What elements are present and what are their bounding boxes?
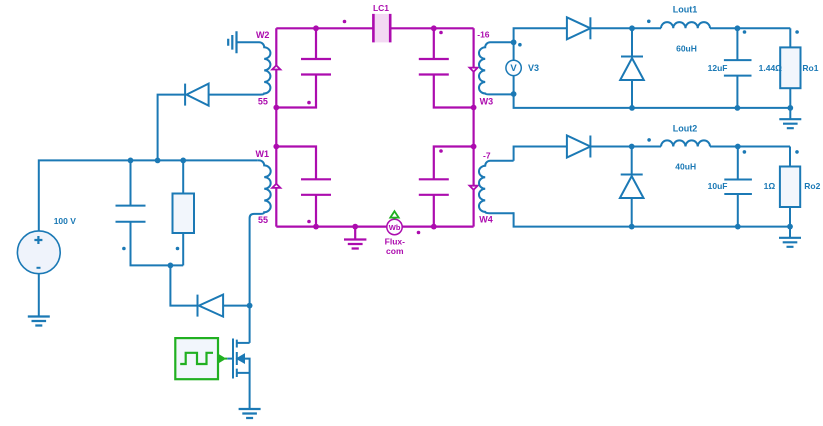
svg-text:-16: -16 — [477, 30, 490, 40]
svg-text:W2: W2 — [256, 30, 270, 40]
svg-text:100 V: 100 V — [54, 216, 77, 226]
svg-text:60uH: 60uH — [676, 43, 697, 53]
svg-text:W4: W4 — [479, 215, 493, 225]
svg-text:com: com — [386, 246, 404, 256]
svg-text:Wb: Wb — [389, 223, 401, 232]
svg-text:12uF: 12uF — [708, 63, 728, 73]
svg-text:W1: W1 — [256, 149, 270, 159]
svg-text:-7: -7 — [483, 150, 491, 160]
svg-text:LC1: LC1 — [373, 3, 389, 13]
svg-text:40uH: 40uH — [675, 161, 696, 171]
svg-text:1.44Ω: 1.44Ω — [759, 63, 783, 73]
svg-text:W3: W3 — [480, 97, 494, 107]
svg-text:V3: V3 — [528, 63, 539, 73]
svg-text:1Ω: 1Ω — [764, 181, 776, 191]
svg-text:Lout1: Lout1 — [673, 4, 698, 14]
svg-text:55: 55 — [258, 215, 268, 225]
svg-text:Ro2: Ro2 — [804, 181, 820, 191]
svg-text:Lout2: Lout2 — [673, 123, 698, 133]
svg-text:V: V — [510, 63, 517, 74]
svg-text:Ro1: Ro1 — [802, 63, 818, 73]
svg-text:Flux-: Flux- — [385, 237, 405, 247]
svg-text:10uF: 10uF — [708, 181, 728, 191]
svg-text:55: 55 — [258, 96, 268, 106]
